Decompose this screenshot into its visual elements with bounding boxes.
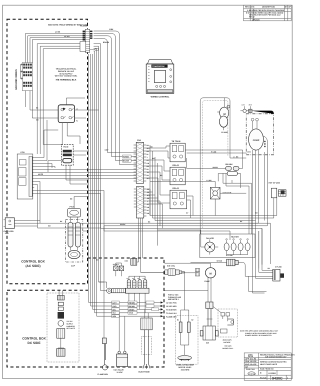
pump motor M4 (165, 263, 216, 283)
misc wire labels (36, 107, 259, 262)
wires: CN2 bottom drops to DC area (137, 218, 165, 272)
svg-text:12 VDC NEG: 12 VDC NEG (166, 305, 177, 308)
svg-text:PL1 BK: PL1 BK (80, 25, 88, 28)
svg-text:POWER SUPPLY IS CONNECTED: POWER SUPPLY IS CONNECTED (245, 334, 272, 337)
svg-text:CN3: CN3 (125, 260, 128, 263)
relay K3 (170, 187, 187, 209)
svg-text:BK/WH: BK/WH (123, 160, 130, 163)
control box (DC side) label (22, 337, 46, 345)
svg-text:CHK 10-2-92: CHK 10-2-92 (245, 360, 256, 363)
ground lugs on terminal block (20, 64, 22, 79)
svg-text:9430C: 9430C (272, 376, 283, 380)
connector CN1 (main board plug) (134, 139, 151, 183)
igniter assembly E2 (139, 309, 153, 373)
note text DC (168, 293, 182, 301)
wires from power inlet (14, 220, 270, 264)
note text bottom right (240, 330, 279, 337)
wires: connector lower pins to left verticals (37, 44, 84, 154)
wires to PL4 (245, 218, 273, 293)
revision table top right (244, 5, 292, 21)
wire from DC box to hi-limit (165, 290, 209, 292)
svg-text:MODELS ALL: MODELS ALL (223, 347, 234, 350)
svg-text:4 PL BK: 4 PL BK (275, 266, 283, 269)
svg-text:BR/WH: BR/WH (103, 41, 110, 44)
control box (DC side) dashed border (7, 258, 164, 367)
fuse harness plug (99, 282, 126, 293)
wires at transformer (48, 151, 89, 184)
svg-text:12 VDC: 12 VDC (117, 371, 124, 374)
svg-text:HOT GP 2000: HOT GP 2000 (269, 181, 280, 184)
svg-text:HEAT PUMP UNITS: HEAT PUMP UNITS (260, 363, 278, 366)
svg-text:WH/BK: WH/BK (123, 155, 130, 158)
wire bundle V2: connector right pins curving down to CN1 (94, 31, 136, 165)
capacitor plug symbols C1 C2 (240, 103, 273, 113)
overload OL1 (210, 181, 231, 215)
svg-text:PUMP: PUMP (205, 280, 211, 283)
svg-text:Coleman: Coleman (249, 372, 256, 375)
svg-text:RD/WH: RD/WH (129, 301, 136, 304)
wire labels on V2 drops (123, 155, 132, 158)
svg-text:D 83392: D 83392 (269, 372, 276, 375)
svg-text:(AC SIDE): (AC SIDE) (25, 264, 40, 268)
svg-text:L2 WH: L2 WH (64, 35, 70, 38)
svg-text:M: M (210, 273, 212, 276)
svg-text:FLAME SEN: FLAME SEN (98, 373, 109, 376)
svg-text:COMP: COMP (253, 139, 260, 142)
svg-text:REV DATE: REV DATE (245, 6, 255, 9)
control box (AC side) dashed border (7, 19, 88, 284)
svg-text:OR/BK: OR/BK (129, 308, 135, 311)
wires: vertical bundle from CN area down to AC bus (147, 145, 158, 246)
condenser fan motor M1 (217, 98, 230, 134)
wire labels at compressor (211, 150, 239, 158)
svg-text:1/3 AMP: 1/3 AMP (221, 131, 229, 134)
wire to overload (150, 180, 215, 182)
DC harness dotted box (47, 290, 79, 362)
svg-text:HEATER: HEATER (231, 235, 239, 238)
svg-text:NOTE: NOTE (38, 173, 44, 176)
circuit breaker CB1 (185, 150, 242, 188)
svg-text:SEE NOTE 3: SEE NOTE 3 (168, 298, 179, 301)
svg-text:L1 BK: L1 BK (55, 31, 61, 34)
compressor M2 (247, 118, 267, 153)
gas-option dotted box (218, 309, 237, 350)
svg-text:GB BRK: GB BRK (225, 163, 233, 166)
spark ignitor E1 (141, 264, 189, 322)
svg-text:UPDATE: UPDATE (252, 18, 260, 21)
svg-text:2 PL BK: 2 PL BK (226, 254, 234, 257)
relay K2 (170, 164, 185, 185)
wall thermostat U1 (display unit) (146, 60, 174, 94)
wires at contactor (43, 98, 98, 145)
svg-text:A REVISED PER ECN-2014 BY CH: A REVISED PER ECN-2014 BY CHANGED (247, 9, 285, 12)
small connector CN3 (125, 258, 137, 265)
(extended below via PL4 wires) (256, 150, 273, 278)
svg-text:CAD FILE: CAD FILE (246, 368, 255, 371)
svg-text:APP 10-1-92: APP 10-1-92 (245, 358, 256, 361)
wires: supply lines from terminal block to connector CN-PWR (25, 34, 84, 119)
svg-text:FAN MTR: FAN MTR (206, 237, 215, 240)
fuse block F1 (125, 276, 149, 293)
wires: CN1 right pins to relays K1-K3 (146, 146, 170, 228)
svg-text:PCB: PCB (21, 151, 26, 154)
svg-text:3000 RPM: 3000 RPM (181, 368, 190, 371)
svg-text:ENG 10-4-92: ENG 10-4-92 (245, 363, 256, 366)
svg-text:M: M (224, 113, 226, 116)
relay K1 (TB TRAN) (170, 140, 185, 162)
svg-text:RELAY: RELAY (173, 187, 180, 190)
H/E terminal block note text (55, 68, 78, 82)
hi-limit switch S2 assembly (200, 277, 221, 344)
svg-text:1: 1 (287, 377, 288, 380)
connector CN2 (134, 187, 151, 219)
svg-text:TO GAS VLV: TO GAS VLV (166, 312, 178, 315)
svg-text:TOMORROW: TOMORROW (152, 65, 164, 68)
wires at capacitor (71, 197, 89, 251)
diode pair D1 D2 (113, 263, 124, 276)
svg-text:Y/GN: Y/GN (129, 312, 134, 315)
svg-text:DESCRIPTION: DESCRIPTION (262, 6, 276, 9)
svg-text:DC SIDE: DC SIDE (28, 341, 41, 345)
svg-text:TB TRAN: TB TRAN (172, 140, 181, 143)
heater plug HOT GP (269, 181, 286, 218)
svg-text:AIR CONDITIONING DIV: AIR CONDITIONING DIV (265, 355, 287, 358)
low pressure switch S1 (2 PL BK) (191, 254, 246, 271)
K3 drops to bus (187, 196, 193, 218)
flame sensor probe (98, 303, 109, 376)
fuse drops to DC rows (129, 293, 145, 313)
PCB board A1 (17, 151, 34, 199)
wire bundle V1: connector down right of dashed edge (89, 44, 107, 317)
svg-text:H/E TERMINAL BLK: H/E TERMINAL BLK (56, 79, 77, 82)
title block bottom right (244, 353, 291, 380)
field wiring note text (48, 24, 89, 27)
transformer T1 (61, 144, 73, 165)
right dotted box: resistors + sail switch (175, 316, 198, 372)
connector CN-PWR (at AC box edge) (80, 29, 99, 52)
heater feed wires from breaker (223, 173, 252, 234)
terminal block TB1 (22, 63, 32, 91)
condenser unit outline (200, 98, 230, 234)
svg-text:SCALE: SCALE (260, 377, 267, 380)
svg-text:12 VDC POS: 12 VDC POS (166, 302, 177, 305)
run capacitor C1 assembly (65, 206, 82, 268)
svg-text:SIZE FSCM NO: SIZE FSCM NO (260, 368, 274, 371)
svg-text:NATURE: NATURE (224, 341, 232, 344)
svg-text:TO IGNITOR: TO IGNITOR (166, 309, 177, 312)
power inlet J1 (4, 218, 15, 235)
svg-text:SW: SW (206, 341, 209, 344)
DC wire rows with arrows (89, 303, 161, 317)
svg-text:GROUND WIRES: GROUND WIRES (15, 69, 18, 90)
svg-text:BK/WH: BK/WH (129, 305, 136, 308)
compressor M2 dash-dot enclosure (246, 114, 274, 155)
svg-text:TRAN: TRAN (63, 146, 69, 149)
blower motor M3 (158, 230, 219, 255)
wires from PCB pins to CN1 (34, 120, 136, 228)
compressor run wires H L (187, 152, 265, 221)
svg-text:Y/BK: Y/BK (109, 28, 114, 31)
contactor K4 (58, 105, 74, 123)
svg-text:WIRING DIAGRAM ELECTRIC: WIRING DIAGRAM ELECTRIC (260, 360, 287, 363)
arrowheads at dashed boundary (161, 301, 164, 317)
svg-text:RELAY: RELAY (173, 164, 180, 167)
wires: compressor down to bus (253, 150, 273, 278)
control box (AC side) label (21, 260, 45, 268)
heater assembly box (200, 234, 255, 258)
svg-text:WITH 3/4" CONDUIT MIN.: WITH 3/4" CONDUIT MIN. (55, 75, 78, 78)
svg-text:12V+: 12V+ (112, 301, 116, 304)
svg-text:REV 2: REV 2 (249, 16, 254, 19)
AC power bus wires (38, 191, 277, 303)
row wire labels (112, 301, 178, 318)
svg-text:SEE NOTE: SEE NOTE (67, 327, 76, 330)
logo oval in title block (248, 372, 255, 376)
svg-text:GND: GND (112, 305, 117, 308)
gas valve GV1 (114, 313, 128, 374)
svg-text:WIRED CONTROL: WIRED CONTROL (151, 96, 170, 99)
svg-text:ELECTRODE: ELECTRODE (139, 370, 151, 373)
connector PL4 right (268, 266, 284, 281)
svg-text:IGN COIL: IGN COIL (167, 264, 176, 267)
